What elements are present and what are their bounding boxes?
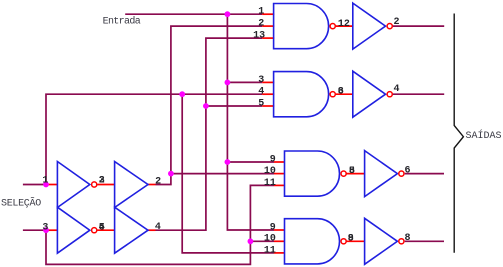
svg-text:5: 5 [349, 166, 355, 177]
svg-text:9: 9 [270, 154, 276, 165]
svg-text:6: 6 [405, 166, 411, 177]
svg-text:4: 4 [258, 87, 264, 98]
svg-text:3: 3 [258, 75, 264, 86]
svg-text:8: 8 [405, 233, 411, 244]
svg-text:SELEÇÃO: SELEÇÃO [1, 196, 41, 209]
svg-text:1: 1 [42, 176, 48, 187]
svg-text:10: 10 [264, 166, 276, 177]
svg-text:1: 1 [338, 19, 344, 30]
svg-text:2: 2 [155, 177, 161, 188]
svg-text:4: 4 [394, 84, 400, 95]
svg-text:3: 3 [338, 87, 344, 98]
svg-text:SAÍDAS: SAÍDAS [466, 128, 502, 142]
svg-text:3: 3 [42, 223, 48, 234]
svg-text:9: 9 [270, 222, 276, 233]
svg-text:11: 11 [264, 245, 276, 256]
svg-text:4: 4 [155, 222, 161, 233]
svg-text:9: 9 [348, 233, 354, 244]
svg-text:4: 4 [99, 223, 105, 234]
svg-text:Entrada: Entrada [103, 15, 141, 27]
svg-text:2: 2 [258, 19, 264, 30]
svg-text:11: 11 [264, 178, 276, 189]
svg-text:13: 13 [253, 31, 265, 42]
svg-text:2: 2 [394, 17, 400, 28]
svg-text:1: 1 [258, 7, 264, 18]
svg-text:2: 2 [99, 176, 105, 187]
svg-text:5: 5 [258, 98, 264, 109]
svg-text:10: 10 [264, 234, 276, 245]
